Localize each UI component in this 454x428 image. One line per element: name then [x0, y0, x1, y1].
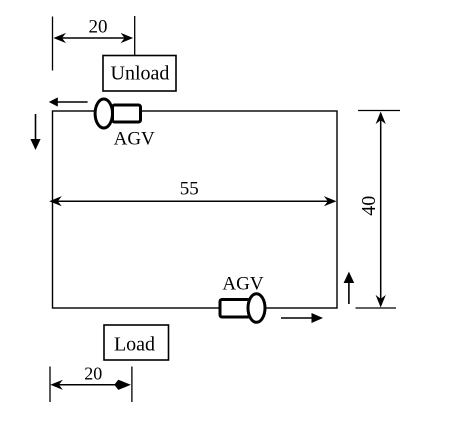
svg-text:AGV: AGV [114, 129, 155, 150]
svg-text:AGV: AGV [222, 274, 263, 295]
svg-text:Load: Load [114, 334, 155, 356]
svg-text:Unload: Unload [111, 63, 170, 85]
svg-text:20: 20 [89, 17, 108, 38]
svg-text:40: 40 [358, 196, 380, 216]
svg-text:20: 20 [84, 364, 102, 384]
svg-text:55: 55 [180, 179, 199, 200]
